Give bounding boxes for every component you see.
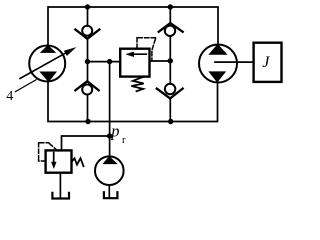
wire middle rail left: left check line to relief valve V2 left port	[88, 61, 121, 63]
relief valve V3 internal arrow (pointing down)	[53, 153, 55, 164]
motor shaft line to load	[215, 61, 254, 63]
relief valve V2 pilot line (dashed)	[136, 38, 138, 49]
svg-text:4: 4	[6, 89, 13, 104]
wire middle rail right: relief valve V2 right port to right check line	[150, 60, 171, 62]
tank T1 (under relief valve V3)	[52, 193, 69, 199]
leader line for label 4	[15, 80, 36, 92]
node dot bottom-left (left check line / bottom rail)	[85, 119, 90, 124]
relief valve V2 (center, cross-port relief) body	[120, 49, 149, 77]
wire right check line upper segment	[169, 7, 171, 23]
relief valve V2 spring	[131, 77, 143, 91]
wire bottom loop: pump bottom to motor bottom	[48, 82, 218, 122]
svg-text:r: r	[122, 135, 126, 146]
check valve CV4 (right bottom, seat below ball)	[157, 84, 183, 99]
node dot top-left (left check line / top rail)	[85, 4, 90, 9]
wire left check line lower segment	[87, 95, 89, 122]
svg-text:p: p	[110, 122, 119, 141]
check valve CV3 (right top, seat above ball)	[159, 23, 183, 36]
wire charge line: middle rail down to pr node and charge pump	[109, 62, 111, 157]
check valve CV2 (left bottom, seat above ball)	[75, 81, 98, 94]
wire right check line bottom segment	[169, 98, 171, 121]
variable displacement arrow on pump	[20, 52, 68, 79]
load J box	[254, 43, 282, 82]
wire charge pump to tank	[108, 185, 110, 197]
wire left check line upper segment	[87, 7, 89, 26]
wire relief valve V3 to tank	[59, 173, 61, 198]
wire right check line lower segment	[169, 61, 171, 84]
svg-text:J: J	[262, 54, 270, 71]
node dot middle-center (charge line / middle rail)	[107, 59, 112, 64]
node dot middle-left (left check line / middle rail)	[85, 59, 90, 64]
relief valve V3 (charge relief, bottom left) body	[46, 150, 72, 172]
wire relief valve V3 top connection	[62, 136, 110, 150]
relief valve V3 spring	[72, 158, 84, 166]
wire top loop: pump top to motor top	[48, 7, 218, 46]
wire right check line middle segment	[169, 36, 171, 61]
relief valve V2 internal arrow (pointing left)	[132, 53, 147, 55]
charge pump P2	[95, 156, 124, 185]
check valve CV1 (left top, seat below ball)	[75, 26, 99, 39]
node dot bottom-right (right check line / bottom rail)	[168, 119, 173, 124]
tank T2 (under charge pump P2)	[104, 192, 118, 198]
motor M1 (hydraulic motor)	[199, 45, 237, 83]
variable pump P1 (main pump)	[29, 46, 65, 82]
wire left check line middle segment	[87, 39, 89, 82]
node dot middle-right (right check line / middle rail)	[168, 58, 173, 63]
node pr (charge pressure node)	[107, 133, 112, 138]
relief valve V3 pilot line (dashed)	[39, 160, 46, 162]
node dot top-right (right check line / top rail)	[168, 4, 173, 9]
